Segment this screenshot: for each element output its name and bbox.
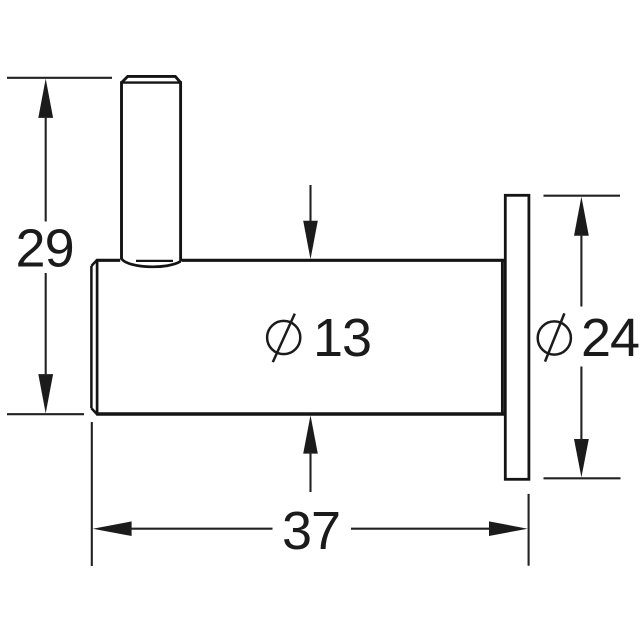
- dim 29 upper arrow: [38, 79, 53, 118]
- svg-text:24: 24: [581, 308, 639, 368]
- peg top cap: [122, 76, 181, 82]
- peg-cylinder saddle arc: [122, 259, 181, 267]
- cylinder right end line at flange: [501, 261, 504, 413]
- dim o24 lower arrow: [574, 439, 589, 477]
- dim 29 bottom extension line: [7, 413, 84, 415]
- cylinder bottom edge: [96, 412, 505, 415]
- dim o24 bottom extension line: [544, 477, 621, 479]
- dim 29 top extension line: [7, 77, 112, 79]
- left end top chamfer: [91, 260, 97, 266]
- cylinder left inner edge: [96, 260, 99, 415]
- dim o13 bottom arrow: [303, 415, 318, 453]
- svg-text:37: 37: [282, 501, 340, 561]
- svg-text:13: 13: [313, 308, 371, 368]
- diameter symbol for 13: [267, 314, 300, 363]
- flange outline: [505, 195, 529, 479]
- dim 37 right arrow: [489, 521, 528, 536]
- dim 29 lower arrow: [38, 374, 53, 413]
- cylinder left end face line: [90, 266, 93, 408]
- svg-text:29: 29: [16, 218, 74, 278]
- cylinder top edge right segment: [182, 259, 505, 262]
- left end bottom chamfer: [91, 408, 97, 414]
- peg left edge: [120, 81, 123, 259]
- saddle back chord: [136, 260, 173, 262]
- dim o24 top extension line: [544, 195, 621, 197]
- dim 37 right extension line: [528, 494, 530, 566]
- dim o13 top arrow: [309, 185, 311, 223]
- cylinder top edge left segment: [96, 259, 120, 262]
- dim 37 left extension line: [91, 422, 93, 566]
- peg right edge: [179, 81, 182, 261]
- dim o24 upper arrow: [574, 197, 589, 236]
- diameter symbol for 24: [538, 313, 571, 361]
- dim 37 left arrow: [93, 521, 132, 536]
